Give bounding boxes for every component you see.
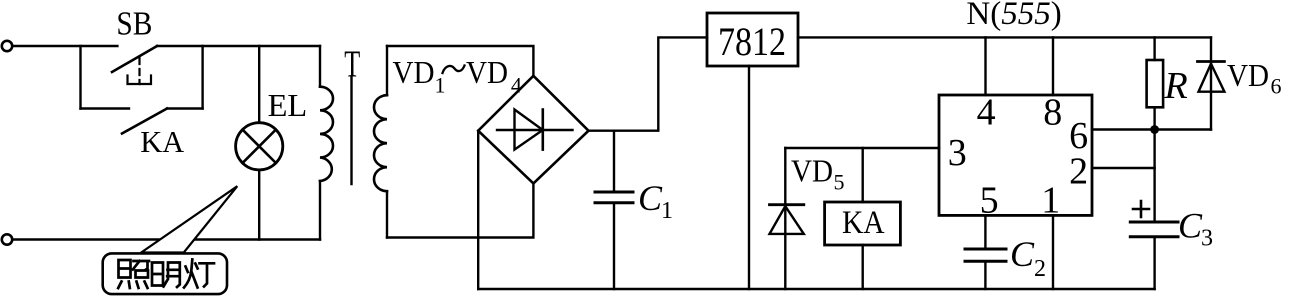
svg-text:2: 2 [1069, 151, 1088, 193]
relay KA coil [862, 148, 864, 202]
svg-text:1: 1 [661, 198, 673, 224]
wire top AC line right of SB [157, 45, 320, 47]
wire ground rail [478, 288, 1154, 290]
hanzi 照 [118, 260, 149, 288]
transformer T primary winding [319, 46, 321, 240]
svg-text:5: 5 [980, 179, 999, 221]
wire secondary top to bridge [387, 46, 533, 76]
wire bottom AC line [13, 238, 321, 240]
plus sign C3 [1133, 201, 1149, 217]
svg-text:1: 1 [435, 73, 446, 98]
wire pin3 to relay/diode [785, 147, 939, 149]
contact KA blade [122, 109, 167, 134]
svg-text:KA: KA [140, 124, 185, 159]
hanzi 明 [152, 263, 180, 288]
wire KA branch left [81, 107, 130, 109]
svg-text:3: 3 [948, 132, 967, 174]
svg-text:2: 2 [1034, 256, 1046, 282]
switch SB blade [112, 46, 157, 72]
svg-text:R: R [1164, 65, 1188, 107]
wire node to C3 [1153, 130, 1155, 221]
svg-text:3: 3 [1201, 226, 1213, 252]
regulator 7812 box [707, 13, 798, 66]
wire lamp top lead [258, 46, 260, 123]
SB pushbutton dashed actuator [138, 58, 140, 84]
wire pin1 lead [1052, 215, 1054, 289]
svg-text:VD: VD [791, 153, 833, 189]
svg-text:N(555): N(555) [966, 0, 1061, 32]
wire KA branch right [167, 107, 203, 109]
svg-text:8: 8 [1043, 92, 1062, 134]
svg-text:4: 4 [977, 92, 996, 134]
callout box 照明灯 [103, 253, 227, 294]
svg-text:C: C [1178, 206, 1203, 246]
wire bridge minus vertical [477, 131, 479, 289]
diode symbol inside bridge [497, 129, 573, 131]
wire secondary bottom to bridge [387, 184, 533, 238]
node junction dot [1150, 125, 1159, 134]
SB pushbutton cap [128, 76, 152, 85]
wire right branch vertical [201, 46, 203, 109]
svg-text:VD: VD [466, 54, 508, 90]
bridge rectifier VD1-VD4 diamond [478, 76, 588, 184]
wire pin6 to node [1092, 128, 1211, 130]
resistor R [1153, 37, 1155, 60]
wire +12V rail [798, 36, 1211, 38]
wire pin2 to node [1092, 167, 1155, 169]
svg-text:EL: EL [268, 87, 308, 123]
svg-text:KA: KA [842, 205, 885, 241]
transformer core [350, 77, 352, 184]
wire lamp bottom lead [258, 170, 260, 240]
callout pointer wedge [141, 186, 237, 252]
transformer T secondary winding [386, 46, 388, 238]
svg-text:C: C [638, 178, 663, 218]
hanzi 灯 [184, 260, 214, 288]
svg-text:VD: VD [1227, 57, 1269, 93]
wire pin4 lead [984, 37, 986, 95]
capacitor C3 polarized [1130, 221, 1178, 224]
lamp EL [236, 123, 283, 170]
wire top AC line [13, 45, 118, 47]
diode VD5 [784, 148, 786, 289]
svg-text:VD: VD [393, 54, 435, 90]
svg-text:1: 1 [1041, 179, 1060, 221]
terminal top-left [2, 41, 12, 51]
svg-text:C: C [1010, 234, 1035, 274]
svg-text:7812: 7812 [718, 19, 786, 64]
capacitor C1 [613, 131, 615, 192]
terminal bottom-left [2, 234, 12, 244]
svg-text:5: 5 [834, 170, 845, 195]
wire left branch vertical [79, 46, 81, 109]
diode VD6 [1210, 37, 1212, 129]
wire bridge plus output [589, 37, 708, 130]
svg-text:T: T [344, 44, 360, 86]
wire 7812 ground lead [748, 66, 750, 289]
wire pin5 lead [984, 215, 986, 249]
svg-text:6: 6 [1271, 74, 1282, 99]
capacitor C2 [965, 248, 1006, 251]
IC 555 box [939, 95, 1092, 215]
wire pin8 lead [1052, 37, 1054, 95]
svg-text:SB: SB [116, 6, 152, 43]
label VD1~VD4 [393, 54, 522, 98]
